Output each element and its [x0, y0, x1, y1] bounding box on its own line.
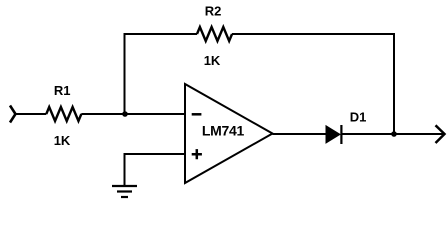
svg-text:D1: D1 [350, 110, 367, 125]
wire output node to arrow [394, 133, 444, 135]
ground stem [124, 153, 126, 186]
wire diode to output node [342, 133, 394, 135]
resistor R2 [197, 27, 232, 41]
wire R2 to right corner [232, 33, 395, 35]
diode D1 cathode bar [340, 125, 342, 144]
wire input to R1 [16, 113, 47, 115]
svg-text:R1: R1 [54, 83, 71, 98]
wire R1 to op-amp inverting input [81, 113, 185, 115]
ground bar 2 [117, 190, 132, 192]
wire feedback up [124, 34, 126, 115]
output node junction dot [391, 131, 397, 137]
ground bar 3 [121, 196, 128, 198]
wire op-amp output to diode [273, 133, 328, 135]
resistor R1 label [54, 83, 71, 98]
op-amp label LM741 [202, 122, 245, 138]
wire top left to R2 [124, 33, 198, 35]
svg-text:1K: 1K [54, 133, 71, 148]
resistor R2 value 1K [204, 53, 221, 68]
output arrow head [436, 125, 445, 143]
resistor R1 [46, 107, 81, 121]
node junction dot at feedback tap [122, 111, 128, 117]
wire ground to non-inverting input [125, 153, 186, 155]
resistor R1 value 1K [54, 133, 71, 148]
svg-text:1K: 1K [204, 53, 221, 68]
op-amp non-inverting input plus sign [192, 149, 202, 159]
resistor R2 label [205, 4, 222, 19]
ground bar 1 [112, 185, 137, 187]
svg-text:LM741: LM741 [202, 122, 245, 138]
wire feedback down to output node [393, 33, 395, 134]
op-amp inverting input minus sign [192, 113, 202, 116]
diode D1 anode triangle [326, 126, 340, 143]
svg-text:R2: R2 [205, 4, 222, 19]
input port arrow [10, 106, 16, 123]
op-amp U1 LM741 [185, 84, 273, 183]
diode D1 label [350, 110, 367, 125]
